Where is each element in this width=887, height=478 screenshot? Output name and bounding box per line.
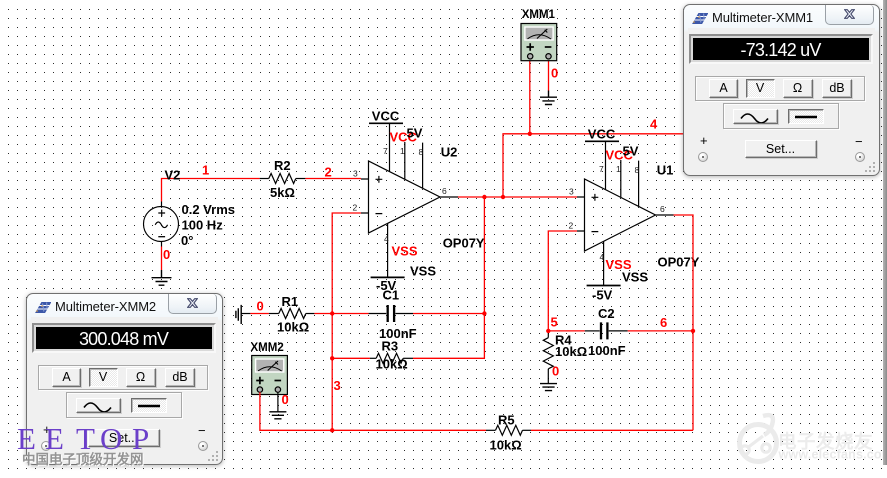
svg-text:10kΩ: 10kΩ xyxy=(277,320,309,335)
wire net0 under V2 xyxy=(161,247,163,271)
wire net4 up and to XMM1 xyxy=(503,134,685,197)
svg-text:4: 4 xyxy=(384,234,389,244)
svg-text:0.2 Vrms: 0.2 Vrms xyxy=(182,202,236,217)
svg-text:VCC: VCC xyxy=(588,127,616,142)
pin numbers U1 xyxy=(569,164,666,262)
source V2 xyxy=(144,202,179,247)
instrument panel Multimeter-XMM2 xyxy=(26,293,223,465)
svg-text:U1: U1 xyxy=(657,163,674,178)
svg-text:4: 4 xyxy=(650,117,658,132)
watermark chinese bottom left xyxy=(22,448,144,468)
watermark elecfans bottom right xyxy=(735,412,887,478)
svg-text:V2: V2 xyxy=(165,168,181,183)
svg-text:10kΩ: 10kΩ xyxy=(490,438,522,453)
power VCC U1 xyxy=(585,127,639,163)
resistor R2 xyxy=(260,174,306,184)
svg-text:C2: C2 xyxy=(598,306,615,321)
svg-text:R3: R3 xyxy=(382,339,399,354)
wire net6 bottom to R5 xyxy=(531,429,693,431)
svg-text:R5: R5 xyxy=(498,413,515,428)
wire net4 U2 output to U1 xyxy=(458,196,577,198)
svg-text:0: 0 xyxy=(552,364,559,379)
svg-text:C1: C1 xyxy=(383,288,400,303)
ground under V2 xyxy=(152,270,172,285)
svg-text:R1: R1 xyxy=(282,294,299,309)
svg-text:5V: 5V xyxy=(623,144,639,159)
label V2 values xyxy=(181,202,235,248)
multimeter icon XMM2 xyxy=(252,356,288,395)
wire net4 C1 to right xyxy=(413,313,484,315)
resistor R3 xyxy=(370,353,413,363)
wire XMM1 plus terminal xyxy=(529,59,531,134)
svg-text:R2: R2 xyxy=(274,158,291,173)
svg-text:7: 7 xyxy=(599,164,604,174)
svg-text:6: 6 xyxy=(442,186,447,196)
svg-text:8: 8 xyxy=(419,147,424,157)
wire net4 vertical to C1 xyxy=(483,197,485,314)
ground left of R1 xyxy=(236,305,251,324)
svg-text:0: 0 xyxy=(257,299,264,314)
power VSS U2 xyxy=(371,244,437,294)
pin numbers U2 xyxy=(353,146,448,244)
svg-text:5V: 5V xyxy=(407,126,423,141)
resistor R5 xyxy=(486,425,531,435)
svg-text:3: 3 xyxy=(353,169,358,179)
svg-text:0: 0 xyxy=(163,247,170,262)
svg-text:-5V: -5V xyxy=(592,288,613,303)
wire net3 left rail xyxy=(332,213,361,430)
svg-text:3: 3 xyxy=(334,378,341,393)
op-amp U1 xyxy=(577,141,674,266)
capacitor C2 xyxy=(585,322,628,339)
svg-text:www.elecfans.com: www.elecfans.com xyxy=(778,447,887,461)
wire net6 U1 output right rail xyxy=(674,215,694,430)
wire net2 R2 to U2 xyxy=(305,178,361,180)
svg-text:4: 4 xyxy=(600,252,605,262)
svg-text:VSS: VSS xyxy=(622,270,648,285)
svg-text:5: 5 xyxy=(551,315,558,330)
wire net5 to C2 xyxy=(548,330,584,332)
power VSS U1 xyxy=(587,257,649,303)
resistor R1 xyxy=(269,309,315,319)
svg-text:5kΩ: 5kΩ xyxy=(270,185,295,200)
svg-text:8: 8 xyxy=(635,165,640,175)
svg-text:VSS: VSS xyxy=(392,244,418,259)
wire net4 R3 to right rail xyxy=(413,314,484,359)
svg-text:1: 1 xyxy=(400,146,405,156)
svg-text:10kΩ: 10kΩ xyxy=(376,357,408,372)
svg-text:XMM1: XMM1 xyxy=(522,9,556,21)
ground under XMM1 xyxy=(540,91,557,105)
svg-text:10kΩ: 10kΩ xyxy=(555,344,587,359)
svg-text:2: 2 xyxy=(325,165,332,180)
instrument panel Multimeter-XMM1 xyxy=(683,4,880,176)
svg-text:2: 2 xyxy=(569,221,574,231)
svg-text:1: 1 xyxy=(202,163,209,178)
svg-text:1: 1 xyxy=(616,164,621,174)
svg-text:OP07Y: OP07Y xyxy=(443,236,485,251)
svg-text:VSS: VSS xyxy=(410,264,436,279)
multimeter icon XMM1 xyxy=(521,24,557,61)
svg-text:100nF: 100nF xyxy=(588,343,626,358)
ground under XMM2 xyxy=(269,412,286,419)
svg-text:0: 0 xyxy=(551,66,558,81)
ground under R4 xyxy=(540,384,557,391)
svg-text:6: 6 xyxy=(660,315,667,330)
svg-text:U2: U2 xyxy=(441,145,458,160)
capacitor C1 xyxy=(369,305,413,322)
svg-text:2: 2 xyxy=(353,203,358,213)
wire net5 U1 inverting input xyxy=(548,231,577,331)
wire net0 to R1 xyxy=(250,313,269,315)
svg-text:100 Hz: 100 Hz xyxy=(182,218,224,233)
svg-text:VCC: VCC xyxy=(372,109,400,124)
wire XMM1 minus terminal xyxy=(548,59,550,91)
wire net3 rail to C1 xyxy=(332,313,368,315)
svg-text:6: 6 xyxy=(660,204,665,214)
svg-text:0°: 0° xyxy=(181,233,193,248)
op-amp U2 xyxy=(361,123,458,248)
wire net3 R1 to rail xyxy=(314,313,332,315)
wire XMM2 plus terminal xyxy=(260,392,332,430)
wire net6 C2 to right rail xyxy=(628,330,693,332)
svg-text:0: 0 xyxy=(282,392,289,407)
wire net3 bottom rail xyxy=(332,429,486,431)
svg-text:3: 3 xyxy=(569,187,574,197)
power VCC U2 xyxy=(369,109,423,145)
wire net3 rail to R3 xyxy=(332,357,370,359)
svg-text:7: 7 xyxy=(383,146,388,156)
wire XMM2 minus terminal xyxy=(277,392,279,412)
svg-text:XMM2: XMM2 xyxy=(251,342,284,354)
resistor R4 xyxy=(543,331,553,384)
watermark EETOP xyxy=(0,420,200,422)
wire net1 V2 to R2 xyxy=(162,179,260,202)
